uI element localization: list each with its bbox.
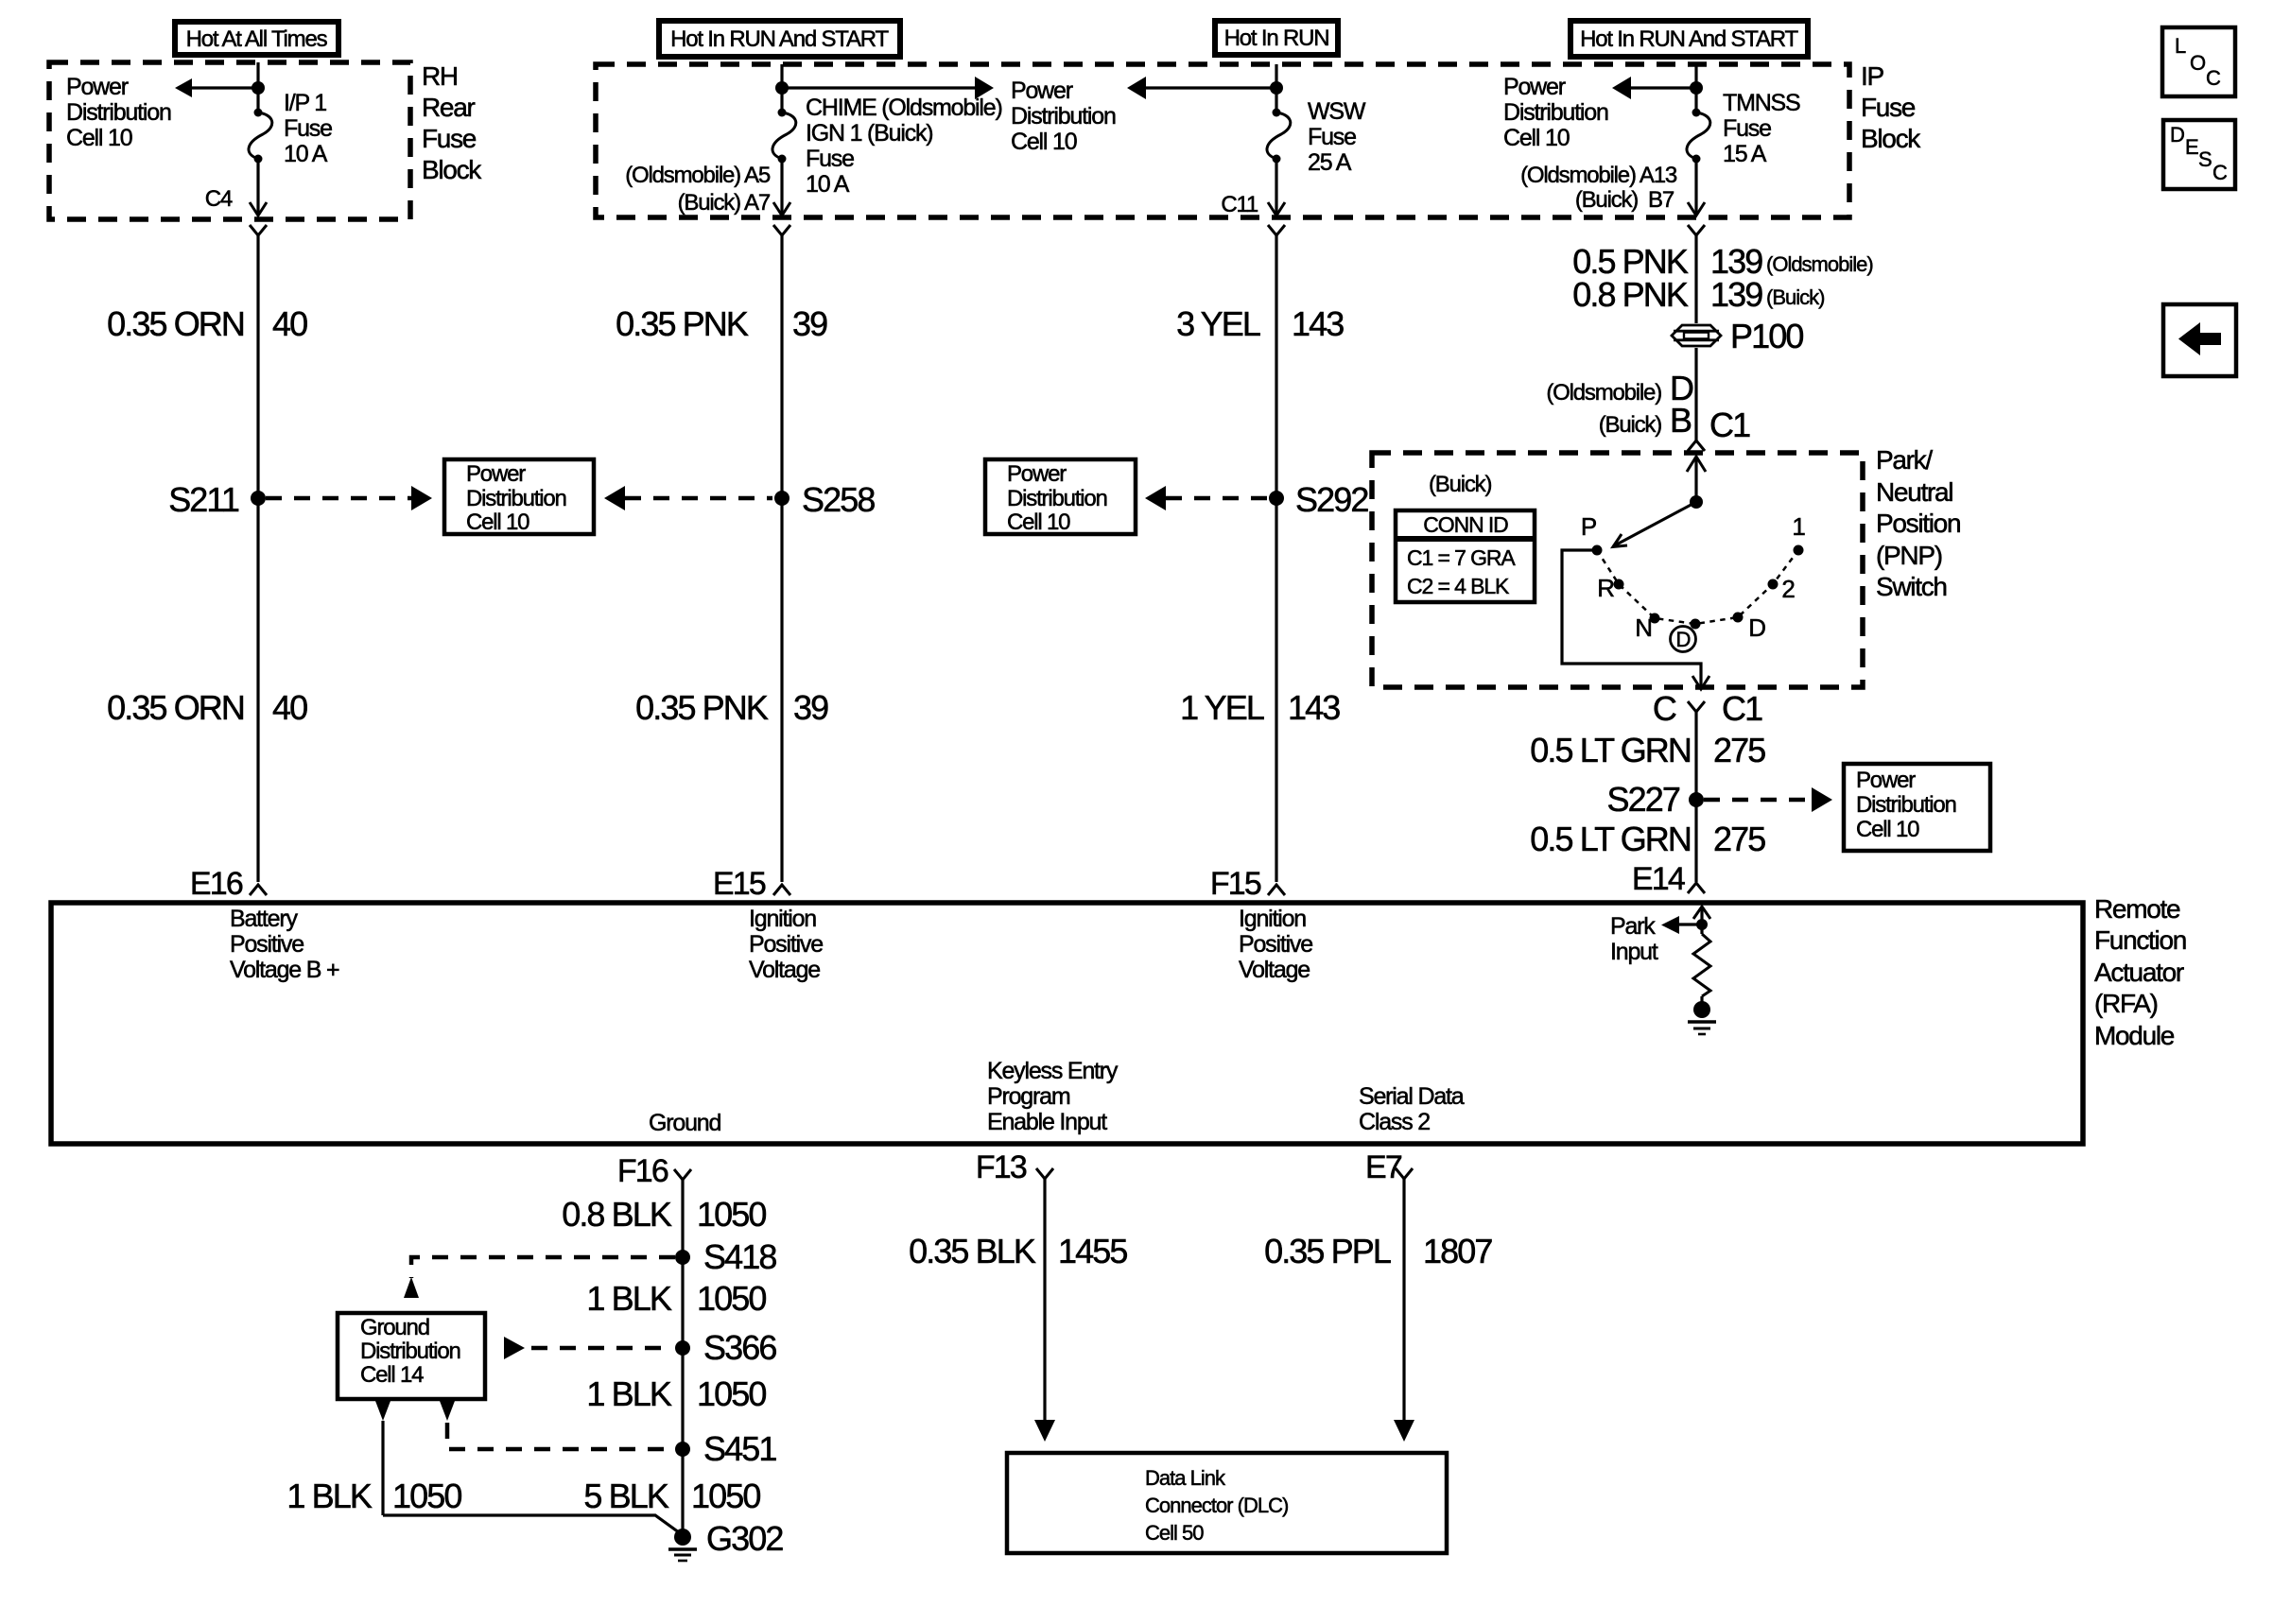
- svg-text:Cell 14: Cell 14: [360, 1362, 424, 1388]
- svg-text:Fuse: Fuse: [806, 146, 854, 172]
- svg-text:E7: E7: [1365, 1149, 1402, 1185]
- svg-text:Power: Power: [1011, 78, 1073, 104]
- svg-text:Hot In RUN And START: Hot In RUN And START: [670, 26, 889, 52]
- svg-text:Function: Function: [2094, 925, 2186, 955]
- svg-text:25 A: 25 A: [1308, 149, 1352, 176]
- svg-text:Distribution: Distribution: [360, 1339, 460, 1364]
- svg-text:Remote: Remote: [2094, 894, 2180, 924]
- svg-text:39: 39: [793, 688, 828, 727]
- svg-text:C: C: [1653, 689, 1676, 728]
- svg-text:E14: E14: [1632, 861, 1685, 897]
- svg-text:Battery: Battery: [230, 906, 298, 932]
- svg-text:(Buick): (Buick): [1429, 472, 1491, 497]
- svg-text:Power: Power: [1007, 461, 1067, 487]
- svg-text:S258: S258: [802, 480, 875, 519]
- svg-text:D: D: [2170, 123, 2184, 147]
- svg-text:S366: S366: [703, 1328, 776, 1367]
- svg-text:1 BLK: 1 BLK: [586, 1374, 671, 1413]
- svg-text:143: 143: [1292, 304, 1344, 343]
- svg-text:Ground: Ground: [649, 1110, 720, 1136]
- svg-text:0.35 PNK: 0.35 PNK: [635, 688, 769, 727]
- svg-text:Voltage: Voltage: [1239, 957, 1310, 983]
- svg-text:IP: IP: [1861, 61, 1883, 91]
- svg-text:Fuse: Fuse: [1723, 115, 1771, 142]
- svg-text:Positive: Positive: [749, 931, 823, 958]
- svg-text:1050: 1050: [697, 1279, 766, 1318]
- svg-text:Distribution: Distribution: [1856, 792, 1956, 818]
- svg-text:CHIME (Oldsmobile): CHIME (Oldsmobile): [806, 95, 1002, 121]
- svg-text:5 BLK: 5 BLK: [583, 1477, 668, 1515]
- svg-text:R: R: [1597, 574, 1614, 602]
- svg-text:S: S: [2198, 147, 2212, 171]
- svg-text:Hot In RUN: Hot In RUN: [1224, 26, 1329, 51]
- svg-text:C11: C11: [1221, 192, 1258, 217]
- svg-text:(Oldsmobile) A13: (Oldsmobile) A13: [1520, 163, 1677, 188]
- svg-text:Module: Module: [2094, 1021, 2175, 1050]
- svg-text:C1: C1: [1709, 406, 1750, 444]
- svg-text:Cell 10: Cell 10: [1856, 817, 1919, 842]
- svg-text:0.5 LT GRN: 0.5 LT GRN: [1530, 820, 1691, 858]
- svg-text:0.8 PNK: 0.8 PNK: [1572, 275, 1689, 314]
- svg-text:Ignition: Ignition: [749, 906, 816, 932]
- svg-text:0.35 PPL: 0.35 PPL: [1264, 1232, 1391, 1270]
- svg-text:0.35 PNK: 0.35 PNK: [616, 304, 749, 343]
- svg-text:C1: C1: [1722, 689, 1762, 728]
- svg-text:1455: 1455: [1058, 1232, 1127, 1270]
- svg-text:1 BLK: 1 BLK: [286, 1477, 372, 1515]
- svg-text:1050: 1050: [392, 1477, 461, 1515]
- svg-text:Power: Power: [466, 461, 526, 487]
- svg-text:F16: F16: [617, 1153, 668, 1189]
- svg-text:D: D: [1748, 613, 1765, 642]
- svg-text:E: E: [2185, 135, 2198, 159]
- svg-text:Ignition: Ignition: [1239, 906, 1306, 932]
- svg-text:275: 275: [1713, 820, 1765, 858]
- svg-text:Serial Data: Serial Data: [1359, 1083, 1465, 1110]
- svg-text:(PNP): (PNP): [1876, 541, 1942, 570]
- svg-text:1: 1: [1792, 512, 1805, 541]
- svg-text:139: 139: [1710, 275, 1762, 314]
- svg-text:C1 = 7 GRA: C1 = 7 GRA: [1407, 545, 1516, 570]
- svg-text:C: C: [2212, 161, 2228, 184]
- svg-text:15 A: 15 A: [1723, 141, 1767, 167]
- svg-text:F15: F15: [1210, 866, 1261, 902]
- svg-text:0.35 ORN: 0.35 ORN: [107, 688, 244, 727]
- svg-text:C: C: [2206, 66, 2221, 90]
- svg-text:(Buick) B7: (Buick) B7: [1575, 187, 1674, 213]
- svg-text:1050: 1050: [697, 1374, 766, 1413]
- svg-text:Fuse: Fuse: [284, 115, 332, 142]
- svg-text:(RFA): (RFA): [2094, 989, 2158, 1018]
- svg-text:Fuse: Fuse: [1308, 124, 1356, 150]
- svg-text:Voltage B +: Voltage B +: [230, 957, 339, 983]
- svg-text:(Oldsmobile): (Oldsmobile): [1546, 380, 1661, 406]
- svg-text:CONN ID: CONN ID: [1423, 512, 1508, 537]
- svg-text:Distribution: Distribution: [1011, 103, 1116, 130]
- svg-text:(Oldsmobile) A5: (Oldsmobile) A5: [625, 163, 771, 188]
- svg-text:Hot At All Times: Hot At All Times: [186, 26, 328, 52]
- svg-text:F13: F13: [976, 1149, 1027, 1185]
- svg-text:3 YEL: 3 YEL: [1176, 304, 1260, 343]
- svg-text:(Buick) A7: (Buick) A7: [678, 190, 771, 216]
- svg-text:G302: G302: [706, 1519, 783, 1558]
- svg-text:0.35 BLK: 0.35 BLK: [909, 1232, 1036, 1270]
- svg-text:143: 143: [1288, 688, 1340, 727]
- svg-text:Enable Input: Enable Input: [987, 1109, 1107, 1135]
- svg-text:Ground: Ground: [360, 1315, 429, 1340]
- svg-text:Power: Power: [1856, 768, 1916, 793]
- svg-text:Connector (DLC): Connector (DLC): [1145, 1494, 1288, 1517]
- svg-text:Cell 10: Cell 10: [1503, 125, 1570, 151]
- svg-text:Distribution: Distribution: [66, 99, 171, 126]
- svg-text:Position: Position: [1876, 509, 1960, 538]
- svg-text:C2 = 4 BLK: C2 = 4 BLK: [1407, 574, 1510, 598]
- svg-text:N: N: [1635, 613, 1652, 642]
- svg-text:Distribution: Distribution: [1007, 486, 1107, 511]
- svg-text:Positive: Positive: [230, 931, 304, 958]
- svg-text:(Buick): (Buick): [1599, 412, 1661, 438]
- svg-text:Cell 50: Cell 50: [1145, 1521, 1204, 1545]
- svg-text:(Buick): (Buick): [1766, 285, 1824, 309]
- svg-text:I/P 1: I/P 1: [284, 90, 326, 116]
- svg-text:Power: Power: [66, 74, 129, 100]
- svg-text:1050: 1050: [691, 1477, 760, 1515]
- svg-text:S418: S418: [703, 1237, 776, 1276]
- svg-text:WSW: WSW: [1308, 98, 1366, 125]
- svg-text:Block: Block: [422, 155, 482, 184]
- svg-text:C4: C4: [205, 186, 233, 212]
- svg-text:Positive: Positive: [1239, 931, 1312, 958]
- svg-text:O: O: [2190, 51, 2206, 75]
- svg-text:10 A: 10 A: [284, 141, 328, 167]
- svg-text:B: B: [1670, 401, 1692, 440]
- svg-text:Park: Park: [1610, 913, 1656, 940]
- svg-text:Hot In RUN And START: Hot In RUN And START: [1580, 26, 1798, 52]
- svg-text:0.5 LT GRN: 0.5 LT GRN: [1530, 731, 1691, 769]
- svg-text:Fuse: Fuse: [422, 124, 477, 153]
- svg-text:L: L: [2175, 34, 2186, 58]
- svg-text:1050: 1050: [697, 1195, 766, 1234]
- svg-text:P: P: [1581, 512, 1596, 541]
- svg-text:S451: S451: [703, 1429, 776, 1468]
- svg-text:Data Link: Data Link: [1145, 1466, 1226, 1490]
- svg-text:2: 2: [1781, 575, 1795, 603]
- svg-text:Distribution: Distribution: [466, 486, 566, 511]
- svg-text:40: 40: [272, 688, 307, 727]
- svg-text:E15: E15: [713, 866, 766, 902]
- svg-text:Voltage: Voltage: [749, 957, 820, 983]
- svg-text:S227: S227: [1607, 780, 1680, 819]
- svg-text:1807: 1807: [1423, 1232, 1492, 1270]
- svg-text:RH: RH: [422, 61, 458, 91]
- svg-text:0.8 BLK: 0.8 BLK: [562, 1195, 672, 1234]
- svg-text:IGN 1 (Buick): IGN 1 (Buick): [806, 120, 932, 147]
- svg-text:Input: Input: [1610, 939, 1658, 965]
- svg-text:Program: Program: [987, 1083, 1070, 1110]
- svg-text:275: 275: [1713, 731, 1765, 769]
- svg-text:Rear: Rear: [422, 93, 475, 122]
- svg-text:Distribution: Distribution: [1503, 99, 1608, 126]
- svg-text:Power: Power: [1503, 74, 1566, 100]
- svg-text:S292: S292: [1295, 480, 1368, 519]
- svg-text:E16: E16: [190, 866, 243, 902]
- svg-text:Class 2: Class 2: [1359, 1109, 1430, 1135]
- svg-text:Keyless Entry: Keyless Entry: [987, 1058, 1119, 1084]
- svg-text:Block: Block: [1861, 124, 1921, 153]
- svg-text:Park/: Park/: [1876, 445, 1933, 475]
- svg-text:Actuator: Actuator: [2094, 958, 2184, 987]
- svg-text:Cell 10: Cell 10: [1011, 129, 1077, 155]
- svg-text:Cell 10: Cell 10: [1007, 510, 1070, 535]
- svg-text:Cell 10: Cell 10: [66, 125, 132, 151]
- svg-text:40: 40: [272, 304, 307, 343]
- svg-text:Switch: Switch: [1876, 572, 1947, 601]
- svg-text:Neutral: Neutral: [1876, 477, 1952, 507]
- svg-text:1 YEL: 1 YEL: [1180, 688, 1264, 727]
- svg-text:Fuse: Fuse: [1861, 93, 1916, 122]
- svg-text:39: 39: [792, 304, 827, 343]
- svg-text:S211: S211: [168, 480, 239, 519]
- svg-text:TMNSS: TMNSS: [1723, 90, 1800, 116]
- svg-text:Cell 10: Cell 10: [466, 510, 529, 535]
- svg-text:10 A: 10 A: [806, 171, 850, 198]
- svg-text:1 BLK: 1 BLK: [586, 1279, 671, 1318]
- svg-text:P100: P100: [1730, 317, 1803, 355]
- svg-text:D: D: [1676, 628, 1691, 651]
- svg-text:0.35 ORN: 0.35 ORN: [107, 304, 244, 343]
- svg-text:(Oldsmobile): (Oldsmobile): [1766, 252, 1873, 276]
